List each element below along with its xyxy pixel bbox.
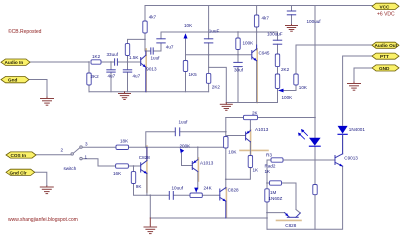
capacitor shunt 4u7 a [107, 70, 115, 72]
wire gnd flag to ground [29, 80, 47, 98]
svg-text:C828: C828 [139, 155, 150, 160]
resistor R3 [271, 158, 283, 162]
trimmer 200K arrow [180, 148, 184, 153]
svg-text:10K: 10K [299, 85, 308, 90]
svg-text:1.5K: 1.5K [129, 55, 139, 60]
resistor 2K rail [244, 115, 258, 119]
trimmer 10K arrow [184, 33, 188, 38]
svg-text:100K: 100K [243, 41, 255, 46]
wire base bus stage2 [186, 54, 252, 56]
svg-text:1K2: 1K2 [92, 54, 101, 59]
svg-text:4k7: 4k7 [149, 15, 157, 20]
ground right GND flag [348, 82, 361, 90]
transistor Q4 C828 [141, 147, 147, 173]
port COS In [6, 152, 36, 158]
transistor Q6 A1013 [246, 131, 251, 142]
svg-text:18K: 18K [120, 139, 129, 144]
LED D1 [309, 138, 321, 146]
svg-text:30uf: 30uf [234, 68, 244, 73]
resistor R input shunt 2K2 [87, 73, 91, 85]
svg-text:1M: 1M [270, 190, 277, 195]
wire trimmer 10K column [185, 39, 187, 61]
wire gnd clr flag [35, 172, 47, 185]
capacitor coupling 1uuf [151, 48, 153, 54]
resistor 10K out [294, 74, 298, 85]
resistor series 1K2 [91, 60, 101, 64]
tan highlight stripes [146, 49, 301, 220]
wire bottom rail right [267, 166, 343, 229]
wire 16K to Q4 base [128, 165, 140, 167]
svg-text:4u7: 4u7 [108, 74, 116, 79]
capacitor 1uuf timing [175, 128, 179, 136]
svg-text:4k7: 4k7 [262, 16, 270, 21]
ground gnd flag top [41, 97, 54, 105]
svg-text:1N60Z: 1N60Z [269, 196, 283, 201]
wire Q9 collector column [225, 147, 227, 189]
trimmer 100K body [275, 74, 279, 89]
capacitor 33uuf [115, 59, 118, 65]
wire Q6 base [226, 135, 246, 137]
svg-text:1uuf: 1uuf [179, 120, 189, 125]
wire Q4 collector node up to cap 1uuf [146, 132, 175, 148]
svg-text:C828: C828 [228, 188, 239, 193]
capacitor shunt 4u7 b [123, 70, 131, 72]
wire bottom rail left [150, 217, 267, 219]
svg-text:Audio Out: Audio Out [375, 43, 398, 48]
svg-text:1K5: 1K5 [189, 72, 198, 77]
port PTT [372, 53, 399, 59]
svg-text:33uuf: 33uuf [107, 52, 119, 57]
wire feedback column [128, 39, 146, 43]
wire shunt cap1 column [110, 62, 112, 70]
wire pot to Q9 base [202, 194, 220, 196]
wire 9K column [133, 166, 135, 172]
capacitor out 10uf [273, 40, 281, 44]
port Gnd Clr [6, 169, 35, 175]
wire output divider column [277, 32, 279, 40]
wire Q1 collector to cap [146, 50, 151, 52]
svg-text:1N4001: 1N4001 [349, 127, 366, 132]
transistor Q2 C945 [252, 45, 257, 61]
resistor R5 1M [265, 189, 269, 202]
wire base line to cap 10uuf [150, 194, 169, 196]
svg-text:16K: 16K [113, 171, 122, 176]
wire cap to base [118, 61, 141, 63]
wire COS in to switch [36, 154, 71, 156]
ground stage2 [220, 103, 232, 111]
bottom section wires [36, 118, 343, 230]
resistor bias 100K [236, 38, 240, 50]
svg-text:100uuf: 100uuf [307, 19, 322, 24]
capacitor decoupling 1uuF [204, 39, 212, 43]
wire audio out [295, 45, 297, 74]
capacitor 10uuf [169, 192, 173, 200]
wire R3 left column [267, 160, 271, 189]
capacitor interstage 4u7 [157, 39, 165, 43]
resistor 2K2 stage2 [206, 73, 210, 83]
wire Q6 collector to 1K [249, 142, 251, 156]
svg-text:3: 3 [85, 142, 88, 147]
port Audio In [1, 59, 30, 65]
resistor R4 [270, 181, 282, 185]
wire VCC dropper Q1 [144, 6, 146, 22]
svg-text:100uuF: 100uuF [267, 32, 283, 37]
trimmer 24K body with arrow [190, 193, 202, 198]
wire 1K bottom jog [226, 168, 251, 180]
svg-text:COS In: COS In [11, 153, 27, 158]
resistor 1K Q6 [248, 156, 252, 168]
wire interstage cap column [160, 43, 162, 51]
svg-text:VCC: VCC [380, 4, 391, 9]
wire emitter rail 117 [226, 117, 244, 119]
svg-text:24K: 24K [204, 186, 213, 191]
wire switch throw3 [82, 146, 116, 148]
svg-text:10uuf: 10uuf [172, 186, 184, 191]
svg-text:1: 1 [85, 155, 88, 160]
svg-text:4u7: 4u7 [166, 45, 174, 50]
svg-text:9013: 9013 [146, 67, 157, 72]
svg-text:Gnd Clr: Gnd Clr [10, 170, 27, 175]
svg-text:©CB.Reposted: ©CB.Reposted [8, 28, 42, 35]
transistor Q8 C828 [285, 213, 301, 218]
svg-text:2K: 2K [252, 111, 259, 116]
port GND [372, 65, 399, 71]
wire cap to pot 24K [174, 194, 191, 196]
switch SW1 [71, 146, 82, 160]
wire ground rail stage1 [89, 91, 209, 93]
svg-text:R3: R3 [266, 153, 272, 158]
wire rail 117 column top [225, 118, 227, 132]
wire VCC dropper Q2 [256, 6, 258, 16]
ground supply cap [286, 25, 298, 32]
ground stage1 [119, 92, 131, 100]
wire 100K bias column [237, 32, 239, 38]
svg-text:2K2: 2K2 [281, 67, 290, 72]
transistor Q9 C828 [220, 188, 226, 218]
wire right bus LED column [314, 6, 316, 138]
resistor pot body 1K5 [183, 61, 187, 72]
svg-text:switch: switch [64, 166, 77, 171]
svg-text:2K2: 2K2 [212, 85, 221, 90]
svg-text:A1013: A1013 [255, 127, 269, 132]
wire audio in [30, 61, 89, 63]
port VCC [372, 3, 399, 17]
svg-text:+6 VDC: +6 VDC [377, 12, 395, 18]
wire Q4 emitter down [146, 173, 148, 195]
wire R4 right to Q8 [282, 183, 297, 210]
wire ground drop x150 [149, 195, 151, 218]
wire stage2 node rail [161, 31, 278, 33]
svg-text:C945: C945 [259, 51, 270, 56]
capacitor supply 100uuf [287, 11, 295, 15]
resistor LED 1K [313, 185, 317, 195]
svg-text:1K: 1K [253, 168, 260, 173]
diode D2 1N4001 [338, 126, 348, 134]
svg-text:Audio In: Audio In [5, 60, 24, 65]
wire R5 bottom column [266, 202, 268, 229]
wire supply cap column [291, 6, 293, 12]
wire Q8 left pin [267, 212, 285, 214]
capacitor 30uf [234, 62, 242, 66]
wire PTT [343, 56, 372, 125]
svg-text:Gnd: Gnd [8, 78, 18, 83]
svg-text:PTT: PTT [380, 54, 389, 59]
svg-text:GND: GND [379, 66, 390, 71]
transistor Q1 9013 [141, 51, 146, 92]
wire 18K to node A [129, 146, 226, 148]
transistor Q7 C9013 [335, 134, 343, 166]
svg-text:C828: C828 [285, 223, 296, 228]
wire R shunt column [88, 62, 90, 73]
svg-text:2: 2 [61, 148, 64, 153]
wire ground rail stage2 [226, 102, 277, 104]
junction dots top [88, 31, 316, 118]
wire top rail VCC [145, 5, 372, 7]
svg-text:10K: 10K [184, 23, 193, 28]
resistor 18K [116, 145, 129, 149]
svg-text:10K: 10K [228, 150, 237, 155]
svg-text:200K: 200K [180, 144, 192, 149]
wire switch throw1 [82, 159, 115, 166]
resistor feedback 1.5K [125, 44, 129, 56]
resistor 16K [116, 164, 129, 168]
wire input node to R series [101, 61, 114, 63]
svg-text:A1013: A1013 [200, 161, 214, 166]
junction dots bottom [133, 131, 268, 219]
svg-text:1uuF: 1uuF [209, 29, 220, 34]
port Gnd [1, 77, 29, 83]
svg-text:100K: 100K [282, 95, 294, 100]
wire GND flag [354, 68, 372, 82]
wire R3 to Q7 base [283, 159, 335, 161]
resistor 2K2 out [275, 54, 279, 67]
resistor collector 4k7 [143, 21, 147, 33]
wire R4 left stub [267, 182, 270, 184]
svg-text:2K2: 2K2 [91, 74, 100, 79]
port Audio Out [372, 42, 399, 48]
wire cap 1uuf right to 10K column [180, 132, 226, 137]
resistor 9K [131, 172, 135, 184]
resistor 4k7 stage2 [254, 15, 258, 27]
svg-text:1uuf: 1uuf [151, 56, 161, 61]
svg-text:1K: 1K [265, 169, 272, 174]
wire 10K bottom to node A [225, 146, 227, 149]
svg-text:4u7: 4u7 [133, 74, 141, 79]
ground gnd clr flag [40, 186, 53, 194]
svg-text:Rad2: Rad2 [265, 164, 276, 169]
wire Q2 emitter [256, 61, 258, 103]
svg-text:9K: 9K [136, 184, 143, 189]
transistor Q5 A1013 [192, 160, 198, 172]
wire Q6 emitter up [249, 118, 251, 132]
ground switch area [144, 218, 157, 234]
wire Q5 collector down arrow to 24K [197, 172, 199, 189]
svg-text:www.shangjianfei.blogspot.com: www.shangjianfei.blogspot.com [8, 217, 78, 223]
resistor 10K latch [224, 137, 228, 149]
wire 200K wiper to Q5 base [182, 154, 193, 166]
svg-text:C9013: C9013 [344, 156, 358, 161]
wire Q5 emitter up [197, 147, 199, 159]
wire decoupling column x208 [208, 6, 210, 39]
wire pot wiper to 10K [284, 90, 297, 92]
